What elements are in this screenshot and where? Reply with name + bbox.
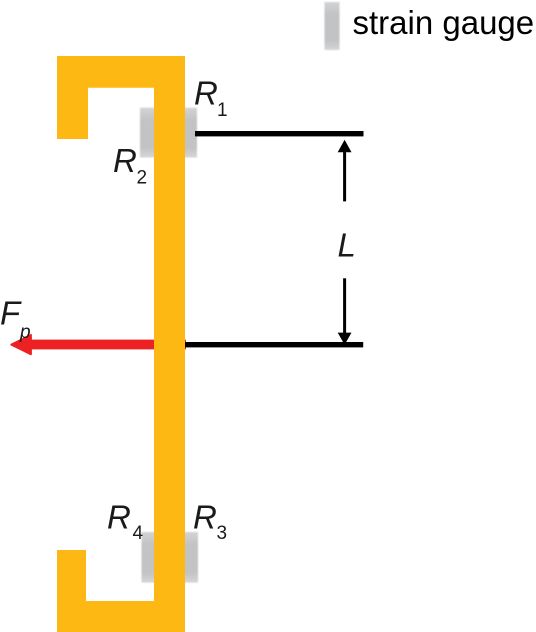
svg-text:3: 3 — [217, 523, 228, 544]
svg-text:R: R — [193, 499, 217, 536]
dimension line upper (at gauge R1 level) — [195, 131, 364, 136]
strain gauge R3/R4 (gray pad behind beam, bottom) — [142, 532, 199, 583]
svg-text:R: R — [113, 142, 137, 179]
svg-text:L: L — [338, 227, 356, 264]
force arrow Fp (red, points left; shaft passes under beam) — [11, 335, 186, 354]
svg-text:R: R — [194, 75, 218, 112]
svg-text:4: 4 — [133, 523, 144, 544]
cantilever flexure (yellow C-shaped beam) — [57, 56, 185, 632]
strain gauge R1/R2 (gray pad behind beam, top) — [140, 108, 197, 158]
dimension arrow upper (points up to upper line) — [338, 140, 352, 202]
svg-text:strain gauge: strain gauge — [353, 4, 535, 41]
legend strain gauge swatch — [325, 2, 340, 50]
svg-text:2: 2 — [137, 168, 148, 189]
svg-text:1: 1 — [217, 100, 228, 121]
svg-text:F: F — [0, 295, 22, 332]
dimension line lower (at force level) — [185, 342, 363, 347]
svg-text:R: R — [107, 499, 131, 536]
svg-text:p: p — [19, 322, 31, 343]
dimension arrow lower (points down to lower line) — [338, 278, 352, 345]
